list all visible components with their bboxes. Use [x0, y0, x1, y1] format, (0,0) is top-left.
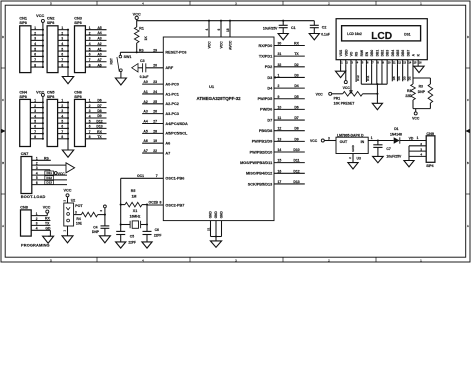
svg-text:30: 30: [278, 42, 282, 46]
svg-text:U3: U3: [357, 157, 361, 161]
svg-text:VO: VO: [349, 51, 353, 56]
svg-text:D6: D6: [294, 105, 298, 109]
svg-text:D11: D11: [293, 159, 299, 163]
svg-text:D7: D7: [294, 116, 298, 120]
svg-text:A3: A3: [143, 110, 147, 114]
svg-text:6: 6: [34, 125, 36, 129]
svg-text:R3: R3: [419, 84, 423, 88]
svg-text:A2-PC2: A2-PC2: [165, 102, 179, 106]
wire: LCD DB5 net D4: [397, 65, 401, 82]
svg-text:VDD: VDD: [344, 49, 348, 57]
svg-text:3: 3: [89, 109, 91, 113]
svg-text:D5: D5: [392, 76, 396, 80]
svg-text:A4: A4: [97, 31, 101, 35]
svg-text:7: 7: [34, 58, 36, 62]
svg-text:A5: A5: [97, 26, 101, 30]
svg-text:7: 7: [156, 174, 158, 178]
crystal X1 16MHz: [120, 209, 148, 228]
wire: LCD VSS to ground: [340, 65, 342, 71]
svg-text:D4: D4: [294, 84, 298, 88]
connector CN2: [47, 17, 68, 73]
svg-text:1: 1: [61, 26, 63, 30]
U1 GND pins 3,5,21: [206, 211, 223, 241]
frame zone letters left: [2, 35, 4, 228]
VCC symbol (CN4 bus): [36, 90, 44, 102]
wire: CN5 ground bus with junctions: [67, 101, 69, 150]
svg-text:2: 2: [61, 104, 63, 108]
svg-text:D3: D3: [402, 76, 406, 80]
svg-text:A6: A6: [143, 139, 147, 143]
svg-text:DB3: DB3: [386, 50, 390, 57]
wire: U1 pin 15 net D11: [274, 159, 305, 163]
svg-text:1: 1: [371, 136, 373, 140]
frame zone numbers bottom: [50, 258, 422, 262]
svg-text:2: 2: [61, 31, 63, 35]
wire: CN1 VCC bus with junctions: [42, 29, 44, 68]
svg-text:6: 6: [217, 29, 221, 31]
svg-text:11: 11: [278, 116, 282, 120]
connector CN5: [47, 90, 68, 146]
wire: U1 AVCC pin 18 stub: [226, 21, 230, 37]
svg-text:DS1: DS1: [404, 32, 410, 36]
svg-text:5: 5: [61, 120, 63, 124]
svg-text:VCC: VCC: [310, 139, 318, 143]
wire: U1 pin 12 net D8: [274, 127, 305, 131]
svg-text:D11: D11: [366, 75, 370, 81]
svg-text:OC2B: OC2B: [149, 201, 159, 205]
svg-text:A7: A7: [143, 149, 147, 153]
svg-text:D13: D13: [293, 180, 299, 184]
svg-text:DB4: DB4: [391, 50, 395, 57]
wire: CN8 pin4 to ground: [31, 227, 51, 237]
svg-text:OSC1-PB6: OSC1-PB6: [165, 177, 184, 181]
svg-text:DB6: DB6: [401, 50, 405, 57]
svg-text:DB1: DB1: [375, 50, 379, 57]
svg-text:A6: A6: [97, 63, 101, 67]
left border port arrow: [1, 129, 6, 133]
svg-text:TX: TX: [45, 222, 50, 226]
svg-text:8: 8: [34, 63, 36, 67]
svg-text:2: 2: [34, 104, 36, 108]
svg-text:A2: A2: [97, 42, 101, 46]
ground (U1): [210, 241, 221, 247]
wire: LCD R/W to ground rail: [360, 65, 362, 84]
svg-text:LCD 16x2: LCD 16x2: [347, 32, 362, 36]
svg-text:7: 7: [89, 130, 91, 134]
svg-text:VCC: VCC: [412, 117, 420, 121]
svg-text:PROGRAMING: PROGRAMING: [21, 243, 50, 248]
svg-text:3: 3: [328, 136, 330, 140]
wire: U1 pin 19 net A6: [142, 139, 163, 143]
VCC port (PR1): [316, 92, 332, 96]
wire: U1 pin 1 net D3: [274, 73, 305, 78]
svg-text:RX: RX: [294, 42, 299, 46]
wire: U1 pin 22 net A7: [142, 149, 163, 153]
svg-text:VCC: VCC: [316, 92, 324, 96]
wire: LCD DB4 net D5: [392, 65, 396, 82]
svg-text:2: 2: [89, 31, 91, 35]
svg-text:D12: D12: [356, 75, 360, 81]
wire: CN7 pin6 D13 net: [32, 181, 67, 185]
wire: CN7 pin4 D11 net: [32, 171, 67, 175]
svg-text:PW/PD5: PW/PD5: [258, 97, 273, 101]
svg-text:CN8: CN8: [20, 206, 28, 210]
svg-text:U1: U1: [209, 84, 215, 89]
svg-text:B: B: [467, 161, 469, 165]
svg-text:A0: A0: [143, 80, 147, 84]
ground (C1): [278, 34, 288, 40]
wire: U1 VCC pin 6 stub: [217, 21, 221, 37]
wire: U1 pin 23 net A0: [142, 80, 163, 84]
svg-text:5: 5: [89, 120, 91, 124]
U1 left pin names: [165, 51, 188, 208]
svg-text:U2: U2: [71, 198, 76, 202]
svg-text:VCC: VCC: [343, 86, 351, 90]
frame zone letters right: [467, 35, 469, 228]
svg-text:1: 1: [417, 136, 419, 140]
svg-text:12: 12: [278, 127, 282, 131]
svg-text:PB0/D8: PB0/D8: [259, 129, 272, 133]
svg-text:D9: D9: [294, 137, 298, 141]
connector CN1: [19, 17, 43, 73]
ground (C7): [373, 156, 384, 162]
svg-text:C6: C6: [155, 228, 159, 232]
svg-text:GND: GND: [351, 144, 355, 152]
svg-text:4: 4: [205, 29, 209, 31]
connector CN3: [74, 17, 106, 73]
resistor R5 1M: [121, 189, 148, 207]
svg-text:AVCC: AVCC: [228, 40, 232, 50]
wire: LCD VDD to VCC: [343, 65, 351, 90]
svg-text:29: 29: [153, 48, 157, 52]
svg-text:GND: GND: [220, 211, 224, 219]
svg-text:A0: A0: [97, 53, 101, 57]
svg-text:A7: A7: [97, 58, 101, 62]
svg-text:22PF: 22PF: [128, 240, 136, 244]
svg-text:3: 3: [75, 210, 77, 214]
svg-text:26: 26: [153, 110, 157, 114]
svg-text:10: 10: [278, 105, 282, 109]
svg-text:SIP4: SIP4: [426, 164, 433, 168]
svg-text:DNP: DNP: [418, 90, 426, 94]
svg-text:25: 25: [153, 100, 157, 104]
ground (CN2 bus): [62, 77, 73, 84]
svg-text:PW/PB1/D9: PW/PB1/D9: [252, 140, 272, 144]
svg-text:D6: D6: [97, 99, 101, 103]
svg-text:21: 21: [206, 227, 210, 231]
svg-text:VCC: VCC: [207, 41, 211, 49]
svg-text:D: D: [2, 35, 4, 39]
ground (CN5 bus): [62, 150, 73, 157]
svg-text:SIP8: SIP8: [74, 95, 81, 99]
svg-text:16: 16: [278, 169, 282, 173]
wire: LCD VO to PR1 wiper: [350, 65, 353, 94]
U1 right pin names: [240, 44, 273, 186]
svg-text:A4/PC4/SDA: A4/PC4/SDA: [165, 122, 188, 126]
frame zone numbers top: [50, 1, 422, 5]
svg-text:7: 7: [34, 130, 36, 134]
svg-text:5: 5: [34, 47, 36, 51]
connector CN6: [74, 90, 106, 146]
svg-text:22E: 22E: [405, 94, 412, 98]
svg-text:RS: RS: [355, 51, 359, 56]
svg-text:1: 1: [34, 99, 36, 103]
svg-text:20: 20: [153, 64, 157, 68]
wire: LCD DB0-DB3 stubs to ground rail: [361, 65, 387, 85]
wire: reset node to SW1: [120, 52, 136, 55]
capacitor C5 22PF: [116, 231, 136, 244]
ground (C4): [99, 236, 110, 243]
svg-text:ATMEGA328TQPF-32: ATMEGA328TQPF-32: [197, 96, 242, 101]
svg-text:A: A: [2, 224, 4, 228]
svg-text:6: 6: [89, 53, 91, 57]
svg-text:D3: D3: [267, 76, 272, 80]
svg-text:1N4148: 1N4148: [390, 132, 402, 136]
wire: VCC rail to U1 top: [137, 20, 315, 22]
svg-text:D8: D8: [294, 127, 298, 131]
sheet border inner frame: [5, 5, 466, 257]
svg-text:DB5: DB5: [396, 50, 400, 57]
VCC symbol (CN8): [43, 205, 51, 213]
svg-text:A5: A5: [143, 129, 147, 133]
svg-text:4: 4: [34, 114, 36, 118]
svg-text:SIP8: SIP8: [19, 95, 26, 99]
svg-text:A4: A4: [143, 120, 147, 124]
svg-text:A: A: [467, 224, 469, 228]
U1 top power pin names: [207, 40, 232, 50]
connector CN9: [420, 132, 435, 168]
svg-text:RX/PD0: RX/PD0: [258, 44, 272, 48]
svg-text:VCC: VCC: [36, 14, 44, 18]
wire: CN7 pin3 to VCC: [32, 170, 54, 173]
svg-text:A1-PC1: A1-PC1: [165, 92, 179, 96]
svg-text:3: 3: [61, 109, 63, 113]
svg-text:MISO/PB4/D12: MISO/PB4/D12: [246, 172, 272, 176]
svg-text:A1: A1: [97, 47, 101, 51]
svg-text:D: D: [467, 35, 469, 39]
svg-text:31: 31: [278, 52, 282, 56]
resistor R3 DNP: [418, 78, 433, 109]
svg-text:2: 2: [278, 84, 280, 88]
svg-text:C2: C2: [322, 25, 327, 29]
svg-text:19: 19: [153, 139, 157, 143]
VCC port (CN7 pin3): [54, 172, 65, 176]
svg-text:18: 18: [226, 28, 230, 32]
svg-text:10uF/25V: 10uF/25V: [386, 155, 402, 159]
svg-text:1M: 1M: [132, 194, 137, 198]
port (R4 node): [99, 205, 106, 216]
ground (U3): [348, 163, 358, 169]
svg-text:C: C: [2, 98, 4, 102]
svg-text:22PF: 22PF: [154, 233, 162, 237]
svg-text:RESET-PC6: RESET-PC6: [165, 51, 186, 55]
svg-text:R4: R4: [76, 217, 80, 221]
svg-text:DB0: DB0: [370, 50, 374, 57]
svg-text:1: 1: [34, 26, 36, 30]
svg-text:TX: TX: [97, 135, 102, 139]
capacitor C6 22PF: [143, 228, 162, 242]
wire: U1 pin 28 net A5: [142, 129, 163, 133]
ground (U2): [62, 236, 73, 243]
svg-text:1K: 1K: [144, 36, 148, 41]
capacitor C3 0.1uF with AREF port arrow: [132, 59, 164, 79]
svg-text:D13: D13: [96, 125, 102, 129]
svg-text:B: B: [2, 161, 4, 165]
svg-text:5: 5: [89, 47, 91, 51]
wire: OSC2 net OC2B: [147, 201, 163, 232]
svg-text:8: 8: [160, 201, 162, 205]
svg-text:1: 1: [89, 26, 91, 30]
svg-text:4: 4: [89, 42, 91, 46]
svg-text:A5/PC5/SCL: A5/PC5/SCL: [165, 132, 188, 136]
capacitor C7 10uF/25V: [373, 139, 402, 158]
svg-text:32: 32: [278, 63, 282, 67]
svg-text:1: 1: [89, 99, 91, 103]
wire: U1 pin 2 net D4: [274, 84, 305, 88]
wire: U1 pin 14 net D10: [274, 148, 305, 152]
wire: U1 pin 31 net TX: [274, 52, 305, 56]
svg-text:4: 4: [89, 114, 91, 118]
svg-text:A6: A6: [165, 142, 170, 146]
port arrow (CN7): [66, 163, 75, 173]
svg-text:D5: D5: [294, 95, 298, 99]
connector CN4: [19, 90, 43, 146]
svg-text:GD: GD: [45, 227, 51, 231]
svg-text:D1: D1: [394, 127, 398, 131]
connector CN8: [20, 206, 49, 248]
svg-text:10uF/25V: 10uF/25V: [263, 27, 278, 31]
wire: U1 pin 27 net A4: [142, 120, 163, 124]
svg-text:24: 24: [153, 90, 157, 94]
wire: U1 pin 9 net D5: [274, 95, 305, 99]
svg-text:A3: A3: [97, 37, 101, 41]
regulator U3 LM7805: [324, 133, 378, 162]
svg-text:CN3: CN3: [74, 17, 82, 21]
svg-text:SIP8: SIP8: [19, 21, 26, 25]
svg-text:3: 3: [89, 37, 91, 41]
svg-text:7: 7: [89, 58, 91, 62]
svg-text:D11: D11: [46, 171, 52, 175]
wire: U1 pin 30 net RX: [274, 42, 305, 46]
svg-text:C5: C5: [130, 235, 134, 239]
svg-text:3: 3: [61, 37, 63, 41]
svg-text:OUT: OUT: [340, 140, 348, 144]
svg-text:D12: D12: [293, 169, 299, 173]
svg-text:5: 5: [61, 47, 63, 51]
svg-text:VCC: VCC: [43, 205, 51, 209]
svg-text:DB2: DB2: [380, 50, 384, 57]
svg-text:PW/PB2/D10: PW/PB2/D10: [250, 150, 273, 154]
svg-text:GND: GND: [209, 211, 213, 219]
svg-text:CN4: CN4: [19, 90, 27, 94]
frame zone tick marks: [1, 1, 470, 262]
svg-text:4: 4: [34, 42, 36, 46]
ground (LCD R/W, contrast): [372, 103, 382, 109]
svg-text:A0-PC0: A0-PC0: [165, 82, 179, 86]
wire: CN7 pin5 D12 net: [32, 176, 67, 180]
wire: R2/R3 bottom rail to VCC: [412, 109, 430, 121]
svg-text:OSC2-PB7: OSC2-PB7: [165, 203, 184, 207]
svg-text:27: 27: [153, 120, 157, 124]
svg-text:8: 8: [61, 63, 63, 67]
svg-text:4: 4: [61, 114, 63, 118]
svg-text:1: 1: [278, 73, 280, 77]
svg-text:PW/D6: PW/D6: [260, 108, 272, 112]
svg-text:17: 17: [278, 180, 282, 184]
svg-text:VD: VD: [409, 136, 414, 140]
svg-text:3: 3: [34, 109, 36, 113]
svg-text:23: 23: [153, 80, 157, 84]
svg-text:C7: C7: [386, 147, 390, 151]
svg-text:1: 1: [61, 99, 63, 103]
svg-text:GND: GND: [214, 211, 218, 219]
svg-text:0.1uF: 0.1uF: [140, 75, 149, 79]
svg-text:PD2: PD2: [265, 65, 272, 69]
svg-text:A2: A2: [143, 100, 147, 104]
svg-text:4: 4: [61, 42, 63, 46]
svg-text:R1: R1: [139, 26, 144, 30]
svg-text:POT: POT: [75, 204, 83, 208]
svg-text:A1: A1: [143, 90, 147, 94]
ground (C5): [116, 242, 126, 248]
svg-text:28: 28: [153, 129, 157, 133]
svg-text:D10: D10: [293, 148, 299, 152]
svg-text:TX/PD1: TX/PD1: [259, 54, 272, 58]
svg-text:9: 9: [278, 95, 280, 99]
capacitor C4 DNP: [92, 215, 109, 236]
wire: LCD backlight cathode to ground: [417, 65, 419, 66]
svg-text:ARF: ARF: [165, 66, 173, 70]
svg-text:D13: D13: [46, 181, 52, 185]
svg-text:2: 2: [34, 31, 36, 35]
ground (CN9): [404, 161, 414, 167]
svg-text:C1: C1: [291, 26, 296, 30]
svg-text:16MHz: 16MHz: [130, 214, 141, 218]
wire: CN8 pin3 TX: [31, 222, 50, 226]
switch SW1: [110, 55, 132, 72]
ground (SW1): [115, 72, 126, 86]
svg-text:D12: D12: [96, 119, 102, 123]
svg-text:7: 7: [61, 58, 63, 62]
potentiometer PR1 10K PRESET: [332, 92, 378, 106]
capacitor C2 0.1uF: [310, 21, 330, 37]
svg-text:IN: IN: [361, 140, 365, 144]
svg-text:CN1: CN1: [19, 17, 27, 21]
ground (LCD K): [414, 66, 424, 72]
wire: U1 pin 25 net A2: [142, 100, 163, 104]
svg-text:RST: RST: [110, 58, 114, 64]
wire: OSC1 net OC1: [120, 174, 164, 231]
display DS1 LCD 16x2: [336, 19, 427, 65]
svg-text:RS: RS: [139, 48, 144, 52]
svg-text:15: 15: [278, 159, 282, 163]
wire: U1 VCC pin 4 stub: [205, 21, 209, 37]
svg-text:VCC: VCC: [63, 189, 71, 193]
svg-text:8: 8: [34, 135, 36, 139]
right border port arrow: [465, 129, 470, 133]
wire: CN8 pin2 RX: [31, 217, 50, 221]
svg-text:SIP8: SIP8: [74, 21, 81, 25]
wire: U1 pin 11 net D7: [274, 116, 305, 120]
svg-text:X1: X1: [133, 209, 137, 213]
svg-text:6: 6: [89, 125, 91, 129]
svg-text:A3-PC3: A3-PC3: [165, 112, 179, 116]
potentiometer U2 POT: [63, 197, 84, 236]
wire: LCD backlight anode to R2/R3: [413, 65, 430, 78]
svg-text:14: 14: [278, 148, 282, 152]
svg-text:D2: D2: [408, 76, 412, 80]
svg-text:D7: D7: [97, 104, 101, 108]
